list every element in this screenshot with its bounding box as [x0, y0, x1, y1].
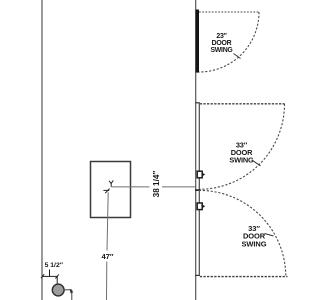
door D2 swing arc	[199, 104, 285, 190]
door D3 slab line (closed)	[198, 191, 200, 276]
wire right wall line	[195, 0, 197, 300]
wire circle leader	[64, 290, 72, 300]
svg-text:38 1/4″: 38 1/4″	[152, 171, 161, 198]
svg-text:SWING: SWING	[242, 239, 267, 248]
door D3 handle	[197, 203, 205, 210]
door D3 sill jamb notch	[195, 274, 200, 276]
svg-text:SWING: SWING	[229, 156, 254, 165]
svg-text:23″: 23″	[216, 33, 227, 40]
node leader tick	[70, 289, 74, 294]
wire 47 dimension vertical line lower segment	[106, 262, 108, 300]
node middle jamb between doors	[195, 189, 200, 191]
wire 38 1/4 dimension line right segment	[162, 186, 195, 188]
door D3 swing arc	[199, 190, 286, 276]
door D2 handle	[197, 171, 205, 178]
door D1 open position dashed	[199, 11, 259, 13]
svg-text:47″: 47″	[101, 252, 113, 261]
label 23" DOOR SWING	[210, 33, 232, 54]
wire label leader D3	[265, 234, 274, 237]
door D2 open position dashed	[200, 103, 285, 105]
door D2 head jamb notch	[195, 102, 200, 104]
door D1 swing arc	[199, 12, 259, 72]
label 33" DOOR SWING (upper)	[229, 140, 254, 164]
node cabinet rectangle	[91, 162, 131, 218]
svg-text:SWING: SWING	[210, 47, 232, 54]
wire 47 dimension vertical line upper segment	[107, 192, 108, 250]
wire 38 1/4 dimension line left segment	[112, 186, 150, 188]
label 33" DOOR SWING (lower)	[242, 224, 267, 248]
svg-text:DOOR: DOOR	[212, 40, 232, 47]
door D3 open position dashed	[200, 276, 288, 278]
node dimension origin ticks inside cabinet	[103, 180, 113, 193]
door D1 slab (closed, thick)	[196, 10, 199, 73]
node shower head circle	[52, 284, 64, 296]
svg-text:5 1/2″: 5 1/2″	[45, 262, 64, 269]
wire label leader D1	[234, 54, 241, 59]
wire 5 1/2 dimension line	[41, 270, 59, 284]
wire left wall line	[41, 0, 43, 300]
door D2 slab line (closed)	[198, 103, 200, 190]
wire label leader D2	[253, 161, 261, 166]
